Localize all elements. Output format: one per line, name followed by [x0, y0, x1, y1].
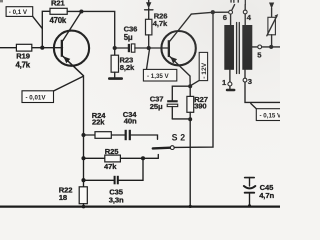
wire C35 loop [119, 158, 143, 180]
wire C37 bottom [172, 118, 190, 120]
terminal 5 tap [252, 46, 258, 48]
wire C36 row [115, 47, 128, 49]
node R22 bottom [82, 205, 86, 209]
resistor R25 [105, 155, 121, 162]
terminal 6 [229, 10, 233, 14]
node emitter/R24 [81, 133, 85, 137]
ground rail bottom [0, 205, 280, 207]
terminal 1 + ground [229, 70, 231, 83]
wire C36 to T2 base [135, 47, 149, 49]
top text fragment [230, 0, 246, 5]
terminal 4 [243, 10, 247, 14]
transformer [222, 14, 280, 103]
node R27 bottom [188, 117, 192, 121]
transistor T1 [54, 12, 89, 76]
wire C34 to contact stub [131, 135, 158, 139]
winding primary [230, 14, 232, 25]
resistor R19 [16, 44, 31, 51]
capacitor C37 [150, 94, 178, 119]
label -1,35V [143, 50, 176, 81]
wire T2 collector rail [191, 12, 228, 14]
node emitter/C35 [81, 178, 85, 182]
wire R24 row [84, 134, 125, 136]
ground R23 [108, 77, 123, 80]
wire R21 right [67, 10, 81, 12]
capacitor C36 [124, 24, 138, 52]
resistor R27 [187, 86, 208, 119]
transistor T2 [149, 14, 196, 76]
core [236, 23, 238, 74]
node T2 base [147, 46, 151, 50]
resistor R22 [59, 185, 87, 206]
capacitor C45 [244, 178, 275, 208]
wire R25 row [84, 157, 159, 159]
wire T2 emitter [189, 76, 191, 86]
resistor R26 [145, 0, 168, 48]
wire R21 to base [42, 11, 50, 47]
switch S2 [153, 12, 213, 149]
node T2 emitter [188, 84, 192, 88]
label -12V rotated [191, 52, 208, 85]
winding secondary [244, 14, 246, 25]
wire T1 emitter vertical [63, 56, 84, 187]
edge fragment top-left [0, 0, 3, 2]
wire to C37 [172, 86, 190, 100]
capacitor C34 [123, 110, 138, 140]
resistor R24 [95, 132, 111, 139]
switch lower contact stub [157, 155, 159, 159]
node trimmer [269, 45, 273, 49]
node emitter/R25 [81, 156, 85, 160]
label -0,15V [251, 104, 282, 121]
node base T1 [40, 46, 44, 50]
label -0,01V [22, 77, 83, 103]
capacitor C35 [109, 176, 124, 205]
wire T1 base rail [0, 47, 63, 49]
node C36/R23 [113, 46, 117, 50]
node collector rail T2 [211, 10, 215, 14]
node collector T1 [79, 9, 83, 13]
trimmer resistor [267, 3, 278, 47]
wire collector rail to C36 [81, 11, 114, 48]
node C35 right [141, 156, 145, 160]
terminal 3 [244, 70, 246, 79]
resistor R23 [111, 48, 135, 77]
label -0,1V [6, 7, 42, 29]
wire R27 to ground rail [189, 119, 191, 206]
resistor R21 [50, 8, 67, 14]
